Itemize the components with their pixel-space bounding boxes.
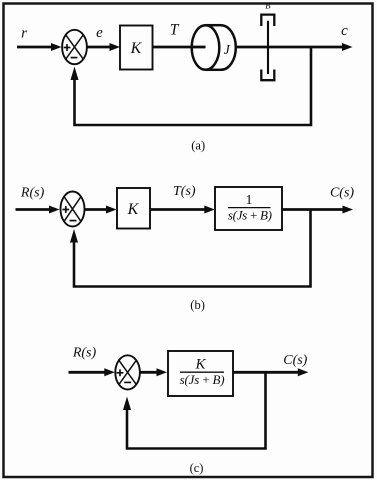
svg-text:K: K <box>127 201 140 218</box>
svg-text:K: K <box>130 40 143 57</box>
block 1/(s(Js+B)) <box>215 187 282 230</box>
wire output (c) <box>233 371 299 374</box>
wire feedback (a) <box>71 47 312 125</box>
svg-text:T(s): T(s) <box>173 184 196 199</box>
wire feedback (c) <box>123 372 266 448</box>
svg-text:K: K <box>194 356 206 372</box>
wire feedback (b) <box>70 210 311 287</box>
summing junction S1 <box>62 30 87 64</box>
summing junction S2 <box>61 192 85 227</box>
svg-text:B: B <box>265 1 270 11</box>
inertia J (cylinder) <box>191 25 236 70</box>
svg-text:(b): (b) <box>190 298 205 312</box>
svg-text:r: r <box>21 26 27 42</box>
output arrowhead C(s) (b) <box>343 206 354 214</box>
svg-text:1: 1 <box>246 193 253 208</box>
svg-text:J: J <box>224 42 231 57</box>
wire to block (c) <box>140 368 167 376</box>
block K/(s(Js+B)) <box>168 351 233 396</box>
damper B symbol <box>261 15 274 81</box>
wire output (b) <box>282 208 343 211</box>
minus sign S1 <box>71 57 78 59</box>
svg-text:(c): (c) <box>190 461 204 475</box>
svg-text:C(s): C(s) <box>283 353 307 368</box>
svg-text:R(s): R(s) <box>20 186 45 201</box>
svg-text:c: c <box>341 23 348 39</box>
output arrowhead C(s) (c) <box>298 368 309 376</box>
wire R(s) input <box>16 206 60 214</box>
plus sign S2 <box>62 206 69 213</box>
wire r input <box>17 43 62 51</box>
wire e <box>87 43 120 51</box>
svg-text:s(Js + B): s(Js + B) <box>228 208 272 223</box>
minus sign S3 <box>124 381 131 383</box>
output arrowhead c <box>342 43 353 51</box>
block K (b) <box>117 188 150 229</box>
wire shaft output <box>236 46 343 49</box>
plus sign S1 <box>64 44 71 51</box>
svg-text:C(s): C(s) <box>330 186 354 201</box>
svg-text:(a): (a) <box>191 139 205 153</box>
plus sign S3 <box>117 369 124 376</box>
minus sign S2 <box>70 220 77 222</box>
svg-text:R(s): R(s) <box>72 346 97 361</box>
wire R(s) input (c) <box>69 368 115 376</box>
wire T (shaft to inertia) <box>153 46 206 49</box>
wire T(s) <box>150 206 215 214</box>
block K (gain) <box>120 26 153 70</box>
svg-text:T: T <box>170 22 180 39</box>
svg-text:s(Js + B): s(Js + B) <box>180 372 225 387</box>
summing junction S3 <box>115 355 140 389</box>
wire to K (b) <box>85 206 117 214</box>
svg-text:e: e <box>96 25 103 41</box>
